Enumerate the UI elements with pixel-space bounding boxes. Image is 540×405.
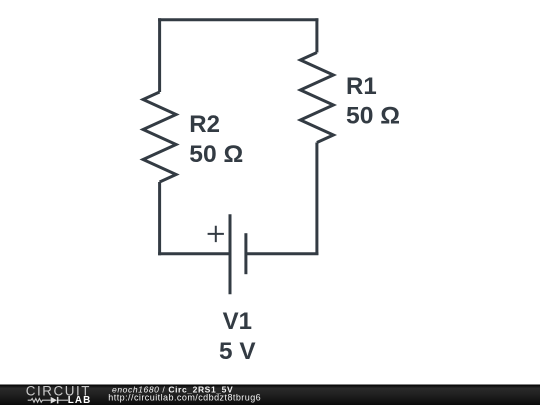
battery V1 positive plate (long) (229, 214, 232, 294)
battery V1 negative plate (short) (244, 233, 247, 274)
logo diode triangle (51, 397, 57, 404)
svg-text:LAB: LAB (68, 395, 92, 405)
svg-text:50 Ω: 50 Ω (189, 141, 243, 168)
wire left lower (R2 pin 2 to battery + node) (158, 182, 161, 255)
svg-text:50 Ω: 50 Ω (346, 102, 400, 129)
logo resistor zigzag (28, 399, 51, 403)
wire bottom right (V1 negative plate to R1 pin 2) (246, 252, 319, 255)
svg-text:5 V: 5 V (219, 338, 256, 365)
svg-text:V1: V1 (223, 308, 252, 335)
wire left upper (top node to R2 pin 1) (158, 18, 161, 92)
resistor R1 (300, 53, 333, 143)
svg-text:http://circuitlab.com/cdbdzt8t: http://circuitlab.com/cdbdzt8tbrug6 (108, 393, 261, 403)
wire right lower (R1 pin 2 down to battery node) (315, 143, 318, 256)
wire right upper (top node to R1 pin 1) (315, 18, 318, 52)
wire bottom left (to V1 positive plate) (158, 252, 230, 255)
logo wire after diode (58, 399, 68, 401)
svg-text:R1: R1 (346, 73, 377, 100)
wire top (node between R1 and R2 tops) (158, 18, 318, 21)
logo diode bar (57, 397, 59, 404)
battery V1 plus sign (208, 226, 224, 242)
resistor R2 (143, 92, 176, 182)
svg-text:R2: R2 (189, 111, 220, 138)
